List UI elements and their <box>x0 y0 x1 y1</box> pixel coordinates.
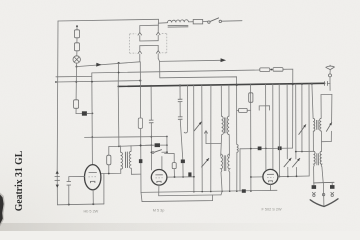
inductor secondary winding <box>129 151 131 168</box>
node junction x279/V3 output row <box>279 176 281 178</box>
resistor R1 (dropper) <box>75 30 80 38</box>
wire <box>76 27 78 30</box>
wire V2 cathode pin <box>158 185 160 196</box>
trimmer arrow T2 <box>202 158 209 167</box>
wire x211 vertical <box>210 85 212 191</box>
wire <box>330 131 332 141</box>
capacitor C4 (block on x140) <box>139 159 143 163</box>
rectifier GR1 (dry rectifier stack) <box>130 19 167 62</box>
node junction y148/x251 <box>250 148 252 150</box>
inductor L3 (IF coil right, upper) <box>227 85 229 156</box>
wire tube V2 grid pin <box>161 157 163 171</box>
antenna A1 <box>326 65 335 91</box>
supply bus (thick) <box>118 83 324 86</box>
svg-text:F 502 S 2W: F 502 S 2W <box>262 207 282 211</box>
secondary coil right (lower) <box>320 151 322 166</box>
node junction y176/x296 <box>296 175 298 177</box>
wire tube V3 screen pin x273 <box>272 84 274 170</box>
node bus junction x293 <box>292 83 294 85</box>
switch S1 (mains switch) <box>208 18 222 23</box>
inductor L2 (IF coil left, upper) <box>221 85 224 156</box>
wire x237 vertical with small winding <box>237 144 239 191</box>
headphone / speaker symbol <box>310 182 338 206</box>
wire tube V2 anode vertical x151 <box>150 86 153 170</box>
inductor L1 (mains choke) <box>158 20 188 27</box>
wire crossover hop <box>259 106 269 110</box>
node junction x140 <box>140 145 142 147</box>
wire V3 input line <box>251 176 263 178</box>
terminal circle right <box>331 194 333 196</box>
earpiece right leads <box>331 192 334 194</box>
trimmer arrow T3 <box>284 158 291 167</box>
wire primary bottom row <box>104 169 121 174</box>
wire heater drop continues to transformer <box>117 86 120 146</box>
resistor R2 (dropper) <box>75 43 80 51</box>
inductor L5 (IF coil right, lower) <box>228 154 230 172</box>
svg-text:Hb 5 2W: Hb 5 2W <box>84 210 99 214</box>
wire secondary top lead <box>130 146 132 152</box>
node junction x251/V3 input <box>250 176 252 178</box>
inductor primary winding <box>121 152 123 169</box>
node junction x194/V2 line <box>193 176 195 178</box>
node bus junction x180 <box>179 84 181 86</box>
resistor R4 (horizontal) <box>260 68 270 72</box>
tube V1 (oval envelope) <box>85 165 101 190</box>
wire row y201.4 <box>142 195 213 202</box>
node junction x118.6 drop <box>118 145 120 147</box>
node junction return/x211 <box>210 191 212 193</box>
wire tube V3 grid pin x266 <box>265 84 267 170</box>
wire x202 vertical <box>201 85 203 191</box>
earpiece right (dark block) <box>330 185 335 189</box>
wire x296 vertical <box>295 84 297 159</box>
wire right drop from bar <box>331 94 333 122</box>
secondary coil left (lower) <box>313 151 315 166</box>
wire bar y94.4 <box>321 93 332 95</box>
earpiece left leads <box>312 192 315 194</box>
trimmer arrow T4 <box>293 158 300 167</box>
wire link y151.4 <box>296 150 314 152</box>
wire left leg <box>313 183 315 185</box>
wire x180 lower <box>182 163 184 177</box>
resistor R8 (on x251) <box>249 93 253 103</box>
capacitor C12 (on x151 vertical) <box>149 120 154 123</box>
terminal circle center <box>322 193 324 195</box>
node junction return/coil right <box>229 191 231 193</box>
tube V2 (round envelope) <box>151 170 167 186</box>
wire AVC feed x279 <box>278 84 280 176</box>
core lines <box>124 152 126 168</box>
wire to headphone bar <box>322 167 323 183</box>
wire anode feed x140 vertical <box>139 62 142 193</box>
wire <box>270 69 273 71</box>
trimmer arrow T1 <box>194 122 201 131</box>
wire primary coil top lead <box>119 146 121 152</box>
resistor R10 (on anode feed x140) <box>138 118 142 128</box>
node junction tube V1 cathode return <box>92 203 94 205</box>
wire cap row right <box>160 144 167 146</box>
node junction V2 output <box>174 176 176 178</box>
wire primary top row <box>109 145 151 146</box>
resistor R3 <box>74 100 79 109</box>
resistor R7 (horizontal, between x237 and x251) <box>237 108 251 112</box>
node junction between resistors <box>271 69 273 71</box>
capacitor C10 <box>67 181 71 185</box>
wire <box>108 165 110 174</box>
wire right leg <box>331 182 333 185</box>
wire heater drop to bus <box>117 63 119 87</box>
wire x167 vertical <box>166 137 168 153</box>
wire <box>76 63 78 66</box>
lamp LA1 (dial lamp, circle with X) <box>73 56 80 63</box>
wire antenna input line L2 <box>56 81 140 82</box>
wire AVC row y148 <box>240 147 293 150</box>
switch S2 (wave-change) <box>152 150 167 154</box>
core IF transformer upper <box>224 118 226 134</box>
wire grid-cap hook x187.5 <box>184 85 187 133</box>
wire bottom return (left) <box>57 203 104 206</box>
node junction x140/transformer top <box>140 144 142 146</box>
wire chain continues down <box>75 67 77 100</box>
arrow output terminal <box>221 58 227 62</box>
headband chevron <box>310 199 338 207</box>
node junction resistor bottom <box>108 173 110 175</box>
wire <box>295 167 297 176</box>
output transformer coil right (upper) <box>320 95 322 152</box>
output transformer coil left (upper) <box>312 84 315 152</box>
svg-text:Geatrix 31 GL: Geatrix 31 GL <box>14 151 25 212</box>
node junction L2/box edge <box>55 81 57 83</box>
svg-text:M 5 3p: M 5 3p <box>153 209 165 213</box>
node bus junction x151 <box>150 85 152 87</box>
wire <box>229 172 231 191</box>
node junction grid/y137 <box>91 136 93 138</box>
node junction x151/cap row <box>151 144 153 146</box>
capacitor C3 (bus end, to antenna) <box>325 81 330 86</box>
node junction link/x296 <box>295 151 297 153</box>
node junction x167/cap row <box>166 144 168 146</box>
wire screen feed row (to resistors) <box>92 70 260 73</box>
node junction lamp / mains feed <box>76 66 78 68</box>
wire coil bottoms to return <box>221 172 222 191</box>
node junction capacitor C1 bottom <box>68 204 70 206</box>
core output transformer lower <box>317 153 319 165</box>
wire V1 cathode pin <box>92 190 94 205</box>
wire <box>68 185 70 204</box>
wire tube V1 anode lead <box>101 173 104 175</box>
tube V3 (round envelope) <box>263 169 278 184</box>
resistor R5 (horizontal) <box>273 68 283 72</box>
wire <box>203 20 208 22</box>
wire rectifier output to arrow <box>158 58 221 61</box>
wire jog x142 <box>141 192 142 201</box>
node bus junction x302 <box>301 83 303 85</box>
wire V2 anode to x194 <box>167 176 194 178</box>
terminal circle left <box>313 194 315 196</box>
wire <box>189 21 194 23</box>
wire corner to resistor <box>108 147 110 156</box>
wire terminal bar <box>314 181 334 184</box>
wire V1 grid (left) lead <box>69 176 85 181</box>
wire V3 output row y176 <box>278 175 309 178</box>
inductor L4 (IF coil left, lower) <box>221 154 223 172</box>
resistor R9 (grid leak) <box>107 155 111 165</box>
capacitor C7 (block on V2 output line) <box>188 172 191 177</box>
wire <box>76 38 78 43</box>
trimmer arrow T6 <box>326 123 331 132</box>
node junction x167/switch <box>166 151 168 153</box>
node junction heater tap <box>118 62 120 64</box>
wire to drop <box>283 69 293 148</box>
wire HT row y77 <box>160 77 237 145</box>
node junction x183/V2 line <box>182 176 184 178</box>
wire V3 cathode pin <box>269 184 271 190</box>
interstage transformer TR1 <box>104 86 151 204</box>
wire input line L3 <box>56 75 92 77</box>
trimmer arrow T5 <box>299 125 306 135</box>
wire left secondary to bar <box>313 167 315 183</box>
node junction y176/x286 <box>287 176 289 178</box>
capacitor C6 (block on x180) <box>181 160 185 164</box>
wire cap row <box>145 144 154 146</box>
wire resistor R6 lead <box>165 154 175 163</box>
wire drop to chassis return <box>103 174 105 204</box>
wire secondary bottom lead <box>131 168 140 174</box>
wire x194 vertical <box>193 85 195 192</box>
wire cathode row y195.7 <box>159 194 221 197</box>
capacitor C2 (block, filled) <box>82 111 87 115</box>
wire <box>287 167 289 176</box>
node junction L2 / rectifier negative <box>139 80 141 82</box>
surge arrester E1 (left edge, arrows and plates) <box>55 170 60 205</box>
wire mains feed to rectifier <box>77 62 140 67</box>
node junction x151/y137 <box>150 136 152 138</box>
core output transformer upper <box>317 120 319 130</box>
core IF transformer lower <box>224 155 226 171</box>
wire grid row y137 <box>85 136 167 139</box>
scan artifact: black wedge at left edge <box>0 193 5 227</box>
wire return row y191.5 <box>141 190 277 192</box>
node junction L2 line <box>75 81 77 83</box>
wire rectifier negative drop <box>159 61 161 77</box>
node junction grid line <box>92 113 94 115</box>
node junction return/x203 <box>201 191 203 193</box>
node junction return/x237 <box>236 190 238 192</box>
capacitor C9 (block on y148 row) <box>278 146 282 150</box>
capacitor C8 (block on y148 row) <box>258 147 262 151</box>
node junction link/x302 <box>301 151 303 153</box>
wire mains lead <box>222 20 243 23</box>
node junction heater/screen row <box>118 72 120 74</box>
fuse F1 <box>193 20 203 24</box>
capacitor C5 (block between x151 and x167) <box>155 143 160 147</box>
wire x302 vertical <box>301 84 303 152</box>
node terminal top of dropper chain <box>76 25 78 27</box>
wire <box>76 108 82 113</box>
wire x286 vertical <box>286 84 288 159</box>
wire <box>76 51 78 56</box>
wire x309 vertical <box>308 84 310 176</box>
wire grid line vertical <box>91 73 94 165</box>
node bus junction x312 <box>311 83 313 85</box>
wire link up to coil return <box>221 191 222 194</box>
wire center leg through to headband <box>322 183 325 206</box>
node junction return/coil left <box>221 191 223 193</box>
node bus junction x237 <box>236 84 238 86</box>
node junction y148/x266 <box>265 147 267 149</box>
wire tap arrow onto coil <box>204 131 221 144</box>
node junction return/x251 <box>250 190 252 192</box>
wire x180 vertical with capacitors <box>178 86 183 160</box>
wire power-box top edge <box>58 19 159 21</box>
node bus junction x140 <box>139 85 141 87</box>
wire x240 vertical <box>239 149 241 191</box>
wire <box>173 169 175 177</box>
earpiece left (dark block) <box>312 185 317 189</box>
wire link y141.5 <box>322 141 332 143</box>
node junction y137 right end <box>166 136 168 138</box>
node junction x151/switch row <box>151 152 153 154</box>
wire <box>87 112 93 114</box>
resistor R6 (tube V2 anode load) <box>172 163 176 169</box>
arrow plug P1 on mains feed <box>96 63 101 67</box>
wire x251 vertical <box>250 84 252 191</box>
node junction x194/return <box>193 191 195 193</box>
capacitor C11 (block on return row) <box>242 189 246 193</box>
wire power-box left edge <box>56 21 59 170</box>
node junction grid/L2 <box>91 81 93 83</box>
